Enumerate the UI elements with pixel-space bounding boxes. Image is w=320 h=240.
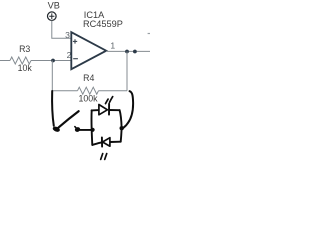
- hand-drawn node right of LED loop: [120, 126, 124, 130]
- wire feedback horizontal left of R4: [52, 90, 77, 92]
- resistor R3: [10, 57, 31, 64]
- hand-drawn wire LED loop right vertical lower: [120, 129, 123, 142]
- hand-drawn wire LED loop top-left: [92, 109, 99, 111]
- power terminal VB (circle with plus): [48, 12, 57, 21]
- R3 value 10k: [18, 63, 33, 73]
- node junction output second: [133, 50, 137, 54]
- LED D1 emission arrows: [106, 97, 113, 104]
- wire node to feedback (down-left leg): [51, 61, 53, 93]
- svg-text:R3: R3: [19, 44, 30, 54]
- wire stub right edge: [148, 33, 150, 35]
- wire feedback right vertical: [126, 52, 128, 91]
- LED D1 triangle (top, anode left): [99, 105, 108, 115]
- LED D1 cathode bar: [108, 104, 110, 115]
- pin 1 label: [110, 41, 115, 51]
- R4 label: [83, 73, 94, 83]
- hand-drawn wire LED loop top-right: [109, 109, 119, 111]
- wire R3 to op-amp pin 2: [31, 60, 71, 62]
- LED D2 cathode bar: [101, 137, 103, 146]
- svg-text:VB: VB: [48, 1, 60, 11]
- power net label VB: [48, 1, 60, 11]
- wire VB terminal to op-amp pin 3: [52, 21, 72, 39]
- node junction at inverting input: [51, 59, 55, 63]
- hand-drawn blob left lead of LED pair: [74, 126, 81, 132]
- LED D2 triangle (bottom, anode right): [103, 138, 110, 147]
- svg-text:R4: R4: [83, 73, 94, 83]
- R4 value 100k: [78, 93, 98, 103]
- svg-text:3: 3: [65, 30, 70, 40]
- LED D2 emission arrows: [101, 154, 107, 160]
- wire feedback horizontal right of R4: [99, 90, 128, 92]
- hand-drawn node left of LED loop: [91, 128, 95, 132]
- svg-text:10k: 10k: [18, 63, 33, 73]
- resistor R4: [78, 87, 99, 94]
- IC1A part value RC4559P: [83, 19, 123, 29]
- R3 label: [19, 44, 30, 54]
- hand-drawn wire LED loop bottom-left: [92, 142, 102, 145]
- hand-drawn wire LED loop bottom-right: [110, 141, 121, 143]
- hand-drawn wire lead to LED pair: [78, 129, 92, 131]
- node junction output/feedback: [125, 50, 129, 54]
- svg-text:RC4559P: RC4559P: [83, 19, 123, 29]
- pin 3 label: [65, 30, 70, 40]
- wire op-amp output to right edge: [106, 50, 150, 52]
- op-amp plus input mark: [73, 39, 77, 43]
- hand-drawn arrowhead blob at wire end: [52, 126, 61, 133]
- op-amp minus input mark: [73, 58, 78, 60]
- IC1A reference label: [84, 10, 105, 20]
- hand-drawn wire from feedback corner to LED loop right node: [124, 91, 134, 128]
- hand-drawn wire LED loop right vertical upper: [120, 110, 122, 127]
- op-amp U1 IC1A triangle: [71, 32, 106, 69]
- svg-text:1: 1: [110, 41, 115, 51]
- hand-drawn wire LED loop left vertical: [91, 110, 94, 145]
- wire input to R3: [0, 60, 10, 62]
- pin 2 label: [67, 50, 72, 60]
- hand-drawn arrow shaft diagonal: [59, 111, 79, 127]
- hand-drawn wire from feedback node down: [52, 91, 54, 126]
- svg-text:100k: 100k: [78, 93, 98, 103]
